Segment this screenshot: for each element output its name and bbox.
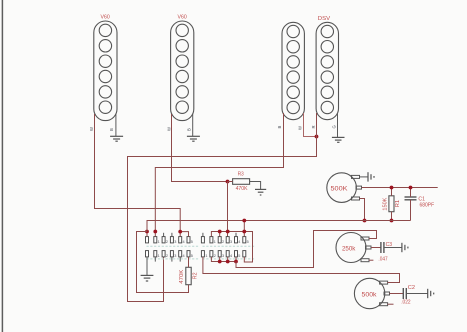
wire R1 bottom lead xyxy=(391,212,393,221)
capacitor C3 label xyxy=(386,242,392,248)
node section B lug5 bottom xyxy=(234,260,238,264)
switch S1 section A dashed outline row1 xyxy=(147,245,199,247)
wire pickup3 B lead down-left to switch lug2 top xyxy=(155,113,283,232)
capacitor C2 plates xyxy=(403,288,406,299)
pot2 terminal middle xyxy=(366,246,372,249)
wire section B lug4 bottom xyxy=(227,257,229,262)
svg-text:R1: R1 xyxy=(395,200,401,207)
svg-text:5: 5 xyxy=(238,254,240,258)
svg-text:B: B xyxy=(277,126,282,129)
wire ground bus from switch lug1 to C1 bottom xyxy=(147,221,411,232)
wire R1 top lead xyxy=(391,188,393,196)
wire pickup2 W lead down to R3 node xyxy=(172,114,228,182)
resistor R1 value 150K xyxy=(382,197,388,210)
wire section B bottom bus xyxy=(211,257,236,262)
ground pickup2 xyxy=(187,136,200,141)
wire pickup3 W lead to junction xyxy=(304,113,317,137)
svg-text:W: W xyxy=(89,127,94,131)
potentiometer pot2 250k circle xyxy=(336,233,366,263)
wire pot3 bottom stub xyxy=(388,303,394,305)
resistor R3 label xyxy=(238,172,244,178)
wire R2 top lead from switch lug6 xyxy=(188,257,190,267)
svg-text:R3: R3 xyxy=(238,172,244,178)
node section A lug5 xyxy=(178,230,182,234)
pickup2 pin label B xyxy=(186,128,191,131)
pot2 terminal bottom xyxy=(361,259,369,262)
svg-text:B: B xyxy=(109,128,114,131)
wire section A lug2 top to node xyxy=(154,232,156,237)
wire pot2 bottom stub xyxy=(369,259,373,261)
pickup #3 body (neck of DSV pair) xyxy=(282,22,304,119)
capacitor C1 plates xyxy=(405,197,417,200)
wire pickup4 R lead down-left-down-right to switch bottom lug3 xyxy=(128,113,317,302)
earth symbol pot1 xyxy=(368,172,374,181)
wire pot2 middle to C3 xyxy=(371,247,381,249)
node pot1 bottom on bus xyxy=(363,219,367,223)
wire section B lug5 bottom xyxy=(235,257,237,262)
pot1 terminal middle xyxy=(356,186,362,189)
wire C1 bottom lead xyxy=(410,200,412,221)
pickup DSV label xyxy=(318,16,330,22)
wire C2 to earth xyxy=(406,293,427,295)
svg-text:4: 4 xyxy=(183,254,185,258)
switch S1 section A top row lugs xyxy=(146,237,191,243)
pickup4 pin label R xyxy=(311,125,316,128)
node section B lug3 bottom xyxy=(218,260,222,264)
scan border left edge xyxy=(1,0,3,332)
switch S1 section A top row pin numbers xyxy=(158,240,193,244)
pickup4 pin label G xyxy=(331,125,336,128)
capacitor C2 value .022 xyxy=(401,300,410,306)
resistor R3 xyxy=(233,179,250,185)
node section B lug6 top xyxy=(242,230,246,234)
ground pickup1 xyxy=(110,136,123,141)
pot1 terminal bottom xyxy=(352,197,360,200)
pickup2 pin label W xyxy=(167,127,172,131)
wire R3 right lead to ground xyxy=(250,182,261,190)
resistor R2 value 470K xyxy=(179,269,185,283)
switch S1 section B top row lugs xyxy=(201,237,245,243)
svg-text:R2: R2 xyxy=(192,272,198,279)
wire C3 to earth xyxy=(384,247,402,249)
wire section A lug5 top to node xyxy=(179,232,181,237)
node section B lug4 top xyxy=(226,230,230,234)
earth symbol C2 xyxy=(428,289,434,298)
svg-text:4: 4 xyxy=(238,240,240,244)
wire R3 left lead xyxy=(228,181,233,183)
wire pot1 top to earth xyxy=(360,176,369,178)
svg-text:2: 2 xyxy=(166,240,168,244)
pickup3 pin label B xyxy=(277,126,282,129)
pot3 terminal top xyxy=(380,281,388,284)
svg-text:4: 4 xyxy=(183,240,185,244)
switch S1 section A bottom row lugs xyxy=(146,251,191,257)
wire stubs section B top free lugs xyxy=(203,233,236,237)
svg-text:V60: V60 xyxy=(178,14,188,20)
switch S1 section B bottom row pin numbers xyxy=(205,254,240,258)
svg-text:C2: C2 xyxy=(408,285,415,291)
wire R3 node down to switch section2 lug4 xyxy=(227,182,229,238)
svg-text:1: 1 xyxy=(158,240,160,244)
pickup1 pin label B xyxy=(109,128,114,131)
resistor R3 value 470K xyxy=(236,186,248,192)
svg-text:150K: 150K xyxy=(382,197,388,210)
resistor R1 label xyxy=(395,200,401,207)
resistor R2 xyxy=(186,267,191,284)
svg-text:R: R xyxy=(311,125,316,128)
svg-text:V60: V60 xyxy=(101,14,111,20)
capacitor C1 value 680PF xyxy=(420,202,435,208)
svg-text:W: W xyxy=(167,127,172,131)
wire section B lug6 top riser to bus xyxy=(243,221,245,237)
pot3 terminal bottom xyxy=(380,303,388,306)
wire pickup2 B lead to ground xyxy=(192,114,194,136)
svg-text:500k: 500k xyxy=(362,291,378,298)
svg-text:680PF: 680PF xyxy=(420,202,435,208)
wire switch to pot2 top xyxy=(236,231,377,268)
ground R3 xyxy=(255,189,266,195)
svg-text:1: 1 xyxy=(205,254,207,258)
wire section A lug5 node to lug6 wrap xyxy=(180,232,188,237)
svg-text:G: G xyxy=(331,125,336,128)
svg-text:.047: .047 xyxy=(378,257,387,263)
wire stubs section A top free lugs xyxy=(164,233,172,237)
svg-text:250k: 250k xyxy=(342,245,356,252)
wire switch bottom lug1 to pot3 top xyxy=(203,257,400,283)
earth symbol C3 xyxy=(402,243,408,252)
svg-text:5: 5 xyxy=(247,240,249,244)
wire pickup4 G lead to ground xyxy=(337,113,339,137)
pickup V60 #2 body xyxy=(171,21,194,121)
switch S1 section A bottom row pin numbers xyxy=(158,254,193,258)
svg-text:5: 5 xyxy=(191,254,193,258)
pot1 terminal top xyxy=(352,175,360,178)
svg-text:.022: .022 xyxy=(401,300,410,306)
node junction R3 left xyxy=(226,180,230,184)
svg-text:3: 3 xyxy=(174,254,176,258)
svg-text:B: B xyxy=(186,128,191,131)
wire C1 top lead xyxy=(410,188,412,198)
wire section A lug1 bottom to ground xyxy=(146,257,148,275)
pot3 terminal middle xyxy=(384,292,390,295)
pickup V60 #2 label xyxy=(178,14,188,20)
wire section B top bus xyxy=(211,232,244,237)
switch S1 section B dashed outline row1 xyxy=(203,245,255,247)
pickup3 pin label W xyxy=(297,126,302,130)
capacitor C3 value .047 xyxy=(378,257,387,263)
svg-text:470K: 470K xyxy=(236,186,248,192)
wire pot1 wiper output line xyxy=(362,187,438,189)
wire section B lug3 bottom xyxy=(219,257,221,262)
svg-text:DSV: DSV xyxy=(318,16,330,22)
wire pot1 bottom to ground bus xyxy=(360,199,365,221)
node R1 top xyxy=(390,186,394,190)
svg-text:2: 2 xyxy=(214,254,216,258)
pickup #4 body (bridge of DSV pair) xyxy=(316,22,338,119)
node section A lug2 xyxy=(153,230,157,234)
switch S1 section B top row pin numbers xyxy=(214,240,249,244)
svg-text:5: 5 xyxy=(191,240,193,244)
svg-text:2: 2 xyxy=(222,240,224,244)
svg-text:470K: 470K xyxy=(179,269,185,283)
node R1 bottom xyxy=(390,219,394,223)
wire pickup1 W lead down-right-down to switch lug5 top xyxy=(95,114,181,232)
svg-text:500K: 500K xyxy=(331,185,349,192)
svg-text:1: 1 xyxy=(158,254,160,258)
node junction pickup3W/pickup4R xyxy=(315,135,319,139)
node section B lug4 bottom xyxy=(226,260,230,264)
pickup1 pin label W xyxy=(89,127,94,131)
switch S1 section A dashed outline row2 xyxy=(147,258,199,260)
capacitor C2 label xyxy=(408,285,415,291)
svg-text:3: 3 xyxy=(230,240,232,244)
capacitor C1 label xyxy=(418,196,425,202)
potentiometer pot1 500K circle xyxy=(327,173,357,203)
wire section B lug6 wrap around xyxy=(244,232,252,263)
svg-text:1: 1 xyxy=(214,240,216,244)
pickup V60 #1 body xyxy=(94,21,117,121)
node C1 top xyxy=(409,186,413,190)
wire stubs section A bottom free lugs xyxy=(155,257,180,262)
svg-text:4: 4 xyxy=(230,254,232,258)
switch S1 section B bottom row lugs xyxy=(201,251,245,257)
resistor R1 xyxy=(389,196,394,212)
wire R2 bottom to left riser to lug1 node xyxy=(137,232,189,293)
switch S1 section B dashed outline row2 xyxy=(203,258,255,260)
svg-text:3: 3 xyxy=(174,240,176,244)
wire pickup1 B lead to ground xyxy=(115,114,117,136)
node section A lug1 xyxy=(145,230,149,234)
svg-text:2: 2 xyxy=(166,254,168,258)
wire section B lug3 top xyxy=(219,232,221,237)
ground switch lug1 xyxy=(141,275,154,281)
ground pickup4 xyxy=(332,137,345,142)
pickup V60 #1 label xyxy=(101,14,111,20)
resistor R2 label xyxy=(192,272,198,279)
capacitor C3 plates xyxy=(381,242,384,253)
pot2 terminal top xyxy=(361,237,369,240)
node bus at switch section2 xyxy=(242,219,246,223)
wire pot3 middle to C2 xyxy=(390,293,404,295)
svg-text:3: 3 xyxy=(222,254,224,258)
potentiometer pot3 500k circle xyxy=(354,278,384,308)
svg-text:W: W xyxy=(297,126,302,130)
node section B lug3 top xyxy=(218,230,222,234)
wire section A lug1 top to node xyxy=(146,232,148,237)
